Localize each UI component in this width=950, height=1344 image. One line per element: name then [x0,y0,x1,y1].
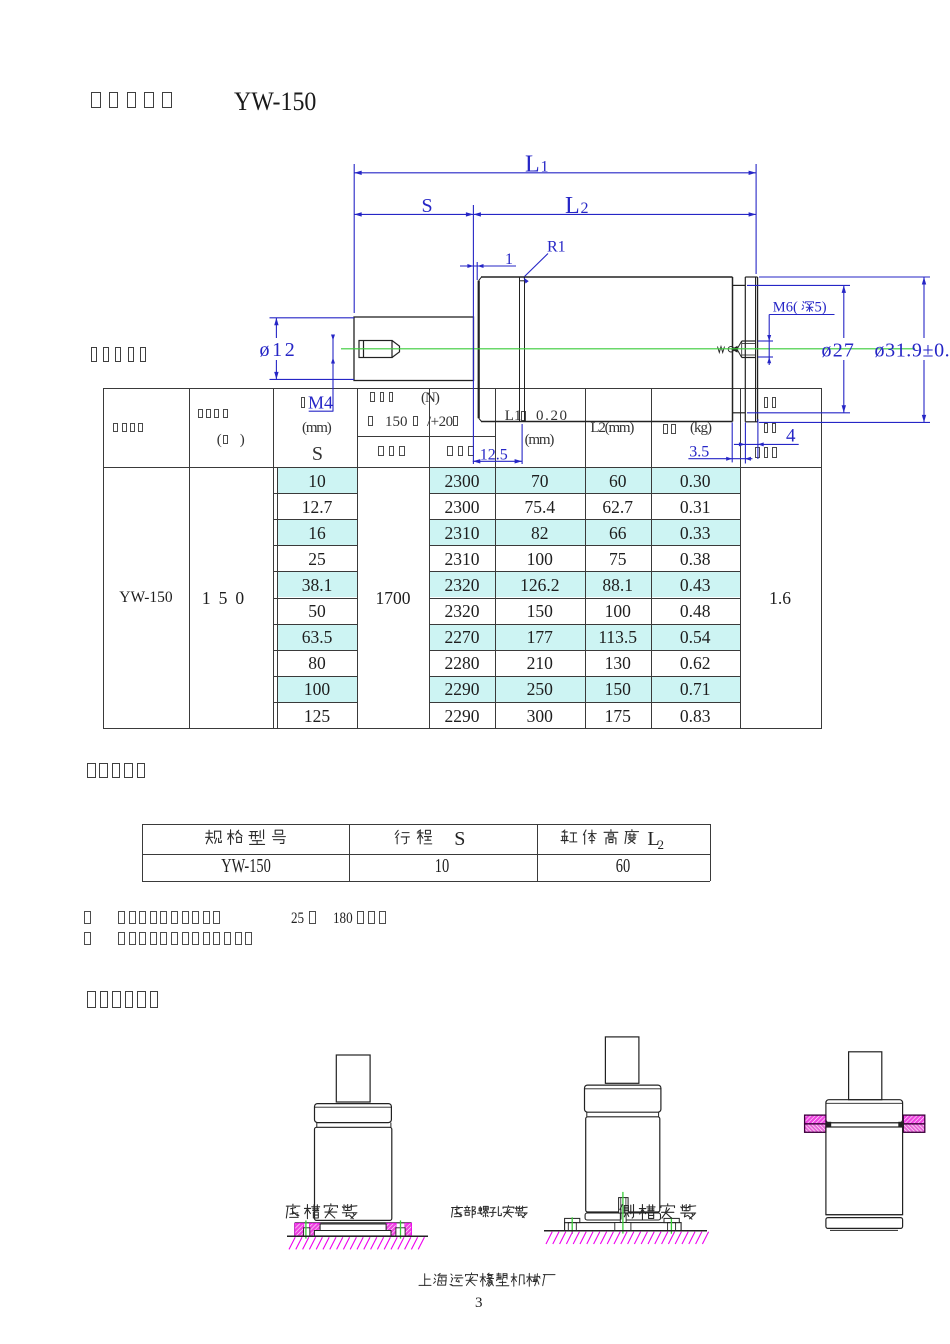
svg-text:4: 4 [786,426,796,447]
svg-text:M6(: M6( [773,300,798,316]
svg-text:L: L [565,193,580,219]
svg-text:2: 2 [581,200,589,217]
svg-text:12.5: 12.5 [480,446,508,463]
svg-text:S: S [422,195,433,217]
svg-text:3.5: 3.5 [689,444,709,461]
svg-text:1: 1 [505,251,513,268]
svg-text:ø27: ø27 [822,340,856,362]
svg-text:R1: R1 [547,239,566,256]
svg-text:M4: M4 [308,392,333,412]
svg-text:ø12: ø12 [260,339,298,361]
svg-text:5): 5) [815,300,827,316]
svg-text:1: 1 [541,159,549,176]
svg-text:ø31.9±0.2: ø31.9±0.2 [875,340,950,362]
svg-text:L: L [525,152,540,178]
